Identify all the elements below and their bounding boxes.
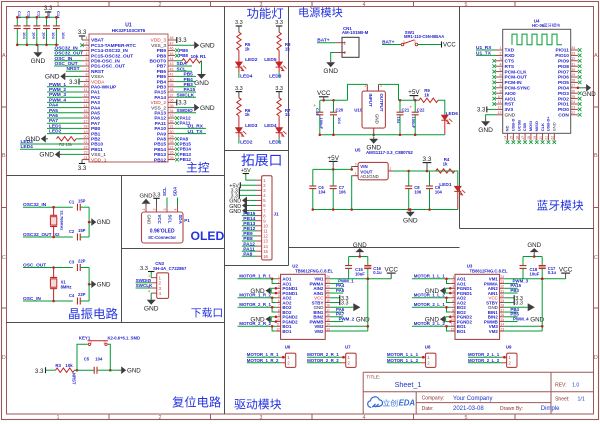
svg-text:PB14: PB14 — [154, 147, 166, 153]
svg-text:SDA: SDA — [173, 186, 178, 196]
ground at U1 VSS_3 — [175, 44, 192, 46]
svg-text:8: 8 — [500, 84, 502, 88]
svg-text:11: 11 — [276, 323, 280, 327]
net label PB8 — [175, 54, 179, 58]
wire U5 output — [393, 170, 458, 172]
svg-text:37: 37 — [170, 93, 174, 97]
svg-text:C2: C2 — [69, 229, 75, 234]
svg-text:SCL: SCL — [177, 66, 187, 72]
wire U5 adj to ground rail — [351, 176, 354, 210]
net label PB13 at J1 — [242, 225, 256, 227]
net label MOTOR_2_R_1 at U7 — [307, 356, 341, 358]
title block — [363, 371, 593, 373]
svg-text:MOTOR_1_R_2: MOTOR_1_R_2 — [247, 358, 279, 363]
ground at U3 PGND — [446, 287, 451, 289]
svg-text:15: 15 — [501, 318, 505, 322]
net label SWCLK at CN3 — [136, 287, 152, 289]
svg-text:4: 4 — [148, 290, 150, 294]
svg-text:3.3: 3.3 — [341, 301, 349, 307]
svg-text:GND: GND — [200, 105, 215, 112]
no-connect marks U4 left — [492, 59, 496, 63]
wire U3 VM3 VM2 rail — [504, 325, 542, 327]
section title 功能灯 — [247, 8, 258, 19]
wire gnd rail above U3 — [523, 256, 542, 258]
resistor R7 1k — [277, 98, 281, 116]
svg-text:SCL: SCL — [168, 215, 173, 224]
svg-text:GND: GND — [478, 127, 493, 134]
net label PWM_4 at U3 PWMB — [504, 321, 517, 323]
svg-text:LED2: LED2 — [245, 57, 258, 63]
svg-text:20: 20 — [501, 294, 505, 298]
svg-text:PB3: PB3 — [184, 82, 194, 88]
net label MOTOR_1_R_2 at U6 — [247, 362, 281, 364]
net label LED4 — [20, 148, 82, 150]
svg-text:MR1-110-C5N-BBAA: MR1-110-C5N-BBAA — [404, 34, 444, 39]
svg-text:9: 9 — [278, 313, 280, 317]
svg-text:HC-06: HC-06 — [532, 23, 545, 28]
svg-text:K2-0.6+6.1_SMD: K2-0.6+6.1_SMD — [108, 335, 140, 340]
svg-text:3.3: 3.3 — [235, 20, 243, 26]
svg-text:GND: GND — [97, 219, 111, 226]
wire gnd rail above U2 — [349, 256, 368, 258]
svg-text:100uF: 100uF — [411, 117, 416, 129]
svg-text:Sheet:: Sheet: — [555, 396, 569, 402]
svg-text:PIO10: PIO10 — [555, 53, 569, 59]
LED LED2 — [238, 50, 240, 62]
svg-text:OSC_OUT: OSC_OUT — [55, 61, 78, 67]
resistor R3 10k — [56, 368, 75, 372]
svg-text:+: + — [410, 105, 413, 110]
capacitor C17 0.1u — [541, 257, 543, 266]
svg-text:LED3: LED3 — [269, 74, 282, 80]
wire U3 VM1 to VCC rail — [504, 278, 565, 280]
net label PB12 at J1 — [242, 230, 256, 232]
resistor R5 1k — [237, 32, 241, 50]
svg-text:25: 25 — [571, 95, 575, 99]
svg-text:1: 1 — [57, 2, 60, 8]
svg-text:33: 33 — [571, 52, 575, 56]
svg-text:27: 27 — [571, 84, 575, 88]
net label BAT+ at SW1 — [382, 44, 401, 46]
ground at U3 PGND — [446, 316, 451, 318]
svg-text:104: 104 — [396, 117, 401, 124]
svg-text:3.3: 3.3 — [69, 80, 78, 86]
resistor R9 1k — [419, 98, 438, 102]
ground at J1 pin6 — [249, 205, 256, 207]
svg-text:39: 39 — [170, 83, 174, 87]
svg-text:PB2: PB2 — [91, 137, 101, 143]
section title 晶振电路 — [69, 308, 79, 319]
svg-text:LED1: LED1 — [439, 182, 452, 188]
net label PB4 at U3 BIN1 — [504, 311, 517, 313]
svg-text:VSS_1: VSS_1 — [91, 152, 106, 158]
svg-text:11: 11 — [498, 100, 502, 104]
capacitor C9 104 — [429, 171, 431, 186]
svg-text:1: 1 — [364, 84, 366, 88]
power VCC for U3 — [541, 278, 544, 281]
net label PA7 — [47, 122, 82, 124]
svg-text:15P: 15P — [78, 198, 86, 203]
svg-text:6: 6 — [500, 73, 502, 77]
svg-text:PB8: PB8 — [179, 53, 188, 58]
net label PA11 — [175, 121, 179, 125]
ground at U10 — [372, 134, 375, 137]
svg-text:3: 3 — [163, 209, 167, 211]
svg-text:PIO1: PIO1 — [558, 102, 569, 108]
svg-text:2021-03-08: 2021-03-08 — [453, 406, 484, 412]
svg-text:P1: P1 — [184, 218, 190, 223]
svg-text:3.3: 3.3 — [78, 29, 87, 36]
section title 电源模块 — [299, 7, 308, 17]
svg-text:19: 19 — [533, 136, 537, 140]
connector J1 — [262, 176, 272, 260]
svg-text:2: 2 — [278, 280, 280, 284]
capacitor C20 104 — [333, 100, 335, 112]
svg-text:PA5: PA5 — [336, 288, 345, 293]
svg-text:28: 28 — [170, 140, 174, 144]
net label PWM_1 at U2 PWMA — [330, 283, 343, 285]
net label PB8 at J1 — [242, 240, 256, 242]
net label PA5 — [47, 112, 82, 114]
net label PB15 — [175, 142, 179, 146]
svg-text:12: 12 — [451, 327, 455, 331]
capacitor C22 100uF — [414, 100, 416, 112]
svg-text:4: 4 — [159, 291, 162, 296]
power 3.3 for LED5 branch — [276, 25, 282, 27]
svg-text:D: D — [594, 355, 598, 361]
svg-text:CLK: CLK — [540, 123, 545, 131]
net label OSC32_OUT — [54, 55, 82, 57]
svg-text:+5V: +5V — [327, 155, 339, 162]
svg-text:D: D — [2, 355, 6, 361]
svg-text:19: 19 — [501, 299, 505, 303]
svg-text:U1_TX: U1_TX — [188, 129, 204, 135]
svg-text:PCM-SYNC: PCM-SYNC — [505, 86, 531, 92]
power 3.3 at U3 VCC — [504, 297, 513, 299]
svg-text:CTS: CTS — [505, 59, 515, 65]
svg-text:PCM-CLK: PCM-CLK — [505, 69, 528, 75]
resistor R2 10k with ground at U1 PB2 — [46, 138, 48, 140]
svg-text:VBAT: VBAT — [91, 38, 104, 44]
svg-text:17: 17 — [326, 308, 330, 312]
svg-text:A: A — [594, 53, 598, 59]
svg-text:MOTOR_1_L_2: MOTOR_1_L_2 — [387, 358, 419, 363]
svg-text:PB7: PB7 — [157, 64, 167, 70]
ground at P1 pin1 — [145, 204, 147, 206]
svg-text:OSC_IN: OSC_IN — [23, 296, 41, 302]
net label LED1 — [47, 127, 82, 129]
power +5V at J1 pin2 — [240, 184, 256, 186]
svg-text:10: 10 — [84, 83, 88, 87]
svg-text:MOTOR_2_L_2: MOTOR_2_L_2 — [468, 358, 500, 363]
svg-text:R3: R3 — [55, 363, 61, 368]
svg-text:PCM-IN: PCM-IN — [505, 80, 523, 86]
svg-text:5: 5 — [465, 415, 468, 421]
svg-text:TITLE:: TITLE: — [366, 374, 380, 379]
svg-text:106: 106 — [339, 190, 347, 195]
svg-text:OSC32_OUT: OSC32_OUT — [55, 51, 84, 57]
svg-text:2: 2 — [500, 52, 502, 56]
svg-text:1: 1 — [90, 340, 92, 344]
ground at U4 PIO4 — [578, 87, 584, 89]
svg-text:C: C — [2, 255, 6, 261]
svg-text:NRST: NRST — [67, 66, 80, 72]
svg-text:OLED: OLED — [191, 229, 225, 243]
svg-text:1/1: 1/1 — [578, 396, 585, 402]
svg-text:17: 17 — [521, 136, 525, 140]
svg-text:22: 22 — [501, 285, 505, 289]
section title 主控 — [187, 162, 198, 172]
svg-text:3.3: 3.3 — [275, 86, 283, 92]
svg-text:PB5: PB5 — [184, 72, 194, 78]
svg-text:GND: GND — [200, 43, 215, 50]
svg-text:OSC32_IN: OSC32_IN — [55, 45, 79, 51]
capacitor C21 104 — [399, 100, 401, 112]
svg-text:PB9: PB9 — [157, 48, 167, 54]
svg-text:9: 9 — [86, 78, 88, 82]
svg-text:104: 104 — [61, 32, 66, 39]
svg-text:MOTOR_2_R_1: MOTOR_2_R_1 — [239, 302, 271, 307]
svg-text:9: 9 — [500, 89, 502, 93]
svg-text:18: 18 — [84, 125, 88, 129]
svg-text:PB4: PB4 — [184, 77, 194, 83]
svg-text:23: 23 — [501, 280, 505, 284]
U4 right pins — [571, 49, 578, 51]
net label PWM_3 at U3 PWMA — [504, 283, 517, 285]
svg-text:TB6612FNG.C.8.EL: TB6612FNG.C.8.EL — [470, 268, 508, 273]
svg-text:14: 14 — [501, 323, 505, 327]
svg-text:VSS_3: VSS_3 — [151, 43, 166, 49]
net label PA15 — [175, 91, 196, 93]
svg-text:21: 21 — [326, 289, 330, 293]
svg-text:GND: GND — [144, 306, 159, 313]
svg-text:5: 5 — [278, 294, 280, 298]
power 3.3 at J1 pin4 — [239, 194, 256, 196]
svg-text:LED4: LED4 — [264, 123, 277, 129]
svg-text:20: 20 — [326, 294, 330, 298]
easyeda logo — [368, 397, 383, 407]
power VCC for U2 — [367, 278, 370, 281]
svg-text:PA14: PA14 — [154, 95, 166, 101]
svg-text:3: 3 — [86, 47, 88, 51]
svg-text:Date:: Date: — [422, 406, 434, 412]
power 3.3 at U1 VDDA — [78, 79, 80, 85]
svg-text:PWM_3: PWM_3 — [49, 92, 66, 98]
U4 bottom pins — [507, 133, 509, 140]
capacitor C2 15P — [76, 234, 78, 241]
svg-text:4: 4 — [500, 62, 502, 66]
ground at U1 VSS_1 — [62, 153, 82, 155]
net label PB13 — [175, 153, 179, 157]
svg-text:RXD: RXD — [505, 53, 516, 59]
svg-text:PIO11: PIO11 — [556, 48, 570, 54]
svg-text:41: 41 — [170, 73, 174, 77]
svg-text:1k: 1k — [285, 112, 290, 117]
svg-text:26: 26 — [170, 151, 174, 155]
svg-text:U1_TX: U1_TX — [476, 50, 492, 56]
svg-text:GND: GND — [39, 152, 54, 159]
svg-text:30: 30 — [571, 68, 575, 72]
power 3.3 for LED4 branch — [276, 91, 282, 93]
ground at U2 PGND — [271, 316, 276, 318]
power 3.3 at U1 VDD_3 — [175, 39, 177, 41]
svg-text:11: 11 — [451, 323, 455, 327]
resistor R4 1k — [436, 169, 455, 173]
svg-text:5: 5 — [452, 294, 454, 298]
capacitor C4 22P — [76, 298, 78, 305]
svg-text:GND: GND — [527, 242, 541, 249]
net label OSC32_IN — [23, 206, 73, 208]
svg-text:22: 22 — [326, 285, 330, 289]
svg-text:22: 22 — [571, 111, 575, 115]
svg-text:PWM_4: PWM_4 — [513, 316, 529, 321]
net label SCL — [175, 70, 192, 72]
svg-text:VCC: VCC — [443, 43, 456, 49]
svg-text:PA4: PA4 — [49, 103, 58, 109]
svg-text:MOTOR_1_L_1: MOTOR_1_L_1 — [387, 352, 419, 357]
wire to ground — [88, 268, 90, 302]
svg-text:40: 40 — [170, 78, 174, 82]
svg-text:RST: RST — [505, 102, 515, 108]
ground of crystal group — [89, 221, 91, 223]
svg-text:104: 104 — [337, 117, 342, 124]
svg-text:OSC_IN: OSC_IN — [55, 56, 73, 62]
svg-text:AIO0: AIO0 — [505, 91, 517, 97]
svg-text:BO1: BO1 — [282, 329, 292, 334]
net label SCL at P1 — [166, 198, 168, 207]
svg-text:TB6612FNG.C.8.EL: TB6612FNG.C.8.EL — [295, 268, 333, 273]
svg-text:13: 13 — [501, 327, 505, 331]
svg-text:NC: NC — [505, 125, 510, 131]
net label MOTOR_1_L_2 at U3 — [412, 297, 450, 299]
svg-text:GND: GND — [403, 218, 418, 225]
power 3.3 at U2 STBY — [330, 302, 339, 304]
net label LED2 — [238, 138, 240, 143]
svg-text:PD1-OSC_OUT: PD1-OSC_OUT — [91, 64, 125, 70]
crystal X1 8MHz — [52, 266, 55, 269]
svg-text:PIO3: PIO3 — [558, 91, 569, 97]
net label PB15 at J1 — [242, 215, 256, 217]
svg-text:23: 23 — [571, 106, 575, 110]
svg-text:U1_RX: U1_RX — [476, 45, 492, 51]
LED LED6 — [438, 100, 445, 114]
svg-text:23: 23 — [84, 151, 88, 155]
net label OSC_IN — [54, 60, 82, 62]
svg-text:VM2: VM2 — [314, 329, 324, 334]
svg-text:3.3: 3.3 — [178, 38, 187, 44]
wire U10 output to +5V rail — [379, 84, 399, 100]
svg-text:8: 8 — [278, 308, 280, 312]
svg-text:10k R1: 10k R1 — [191, 54, 207, 60]
net label PA5 at U2 AIN1 — [330, 292, 343, 294]
svg-text:USB-D: USB-D — [511, 119, 516, 132]
section title 复位电路 — [172, 396, 183, 407]
svg-text:C5: C5 — [84, 357, 90, 362]
svg-text:LED5: LED5 — [264, 57, 277, 63]
power 3.3 at U2 VCC — [330, 297, 339, 299]
net label PA6 at U2 BIN1 — [330, 311, 343, 313]
svg-text:0.1u: 0.1u — [373, 270, 382, 275]
svg-text:U9: U9 — [506, 345, 512, 350]
svg-text:PD0-OSC_IN: PD0-OSC_IN — [91, 59, 120, 65]
svg-text:GND: GND — [31, 58, 46, 65]
net label MOTOR_1_R_1 at U6 — [247, 356, 281, 358]
svg-text:OSC32_IN: OSC32_IN — [23, 202, 47, 208]
svg-text:MOTOR_2_R_1: MOTOR_2_R_1 — [307, 352, 339, 357]
svg-text:SDA: SDA — [178, 215, 183, 225]
svg-text:PC14-OSC32_IN: PC14-OSC32_IN — [91, 48, 128, 54]
svg-text:1: 1 — [355, 172, 357, 176]
net label PB9 — [175, 49, 179, 53]
svg-text:3: 3 — [452, 285, 454, 289]
net label PWM_1 — [47, 86, 82, 88]
LED LED3 — [238, 116, 240, 128]
svg-text:46: 46 — [170, 47, 174, 51]
net label OSC32_IN — [54, 49, 82, 51]
net label SWDIO — [175, 112, 196, 114]
net label MOTOR_1_R_1 at U2 — [238, 278, 276, 280]
net label MOTOR_2_L_1 at U3 — [412, 306, 450, 308]
svg-text:21: 21 — [501, 289, 505, 293]
svg-text:PIO8: PIO8 — [558, 64, 569, 70]
net label PB4 — [175, 81, 196, 83]
svg-text:7: 7 — [500, 79, 502, 83]
svg-text:18: 18 — [501, 304, 505, 308]
svg-text:33: 33 — [170, 114, 174, 118]
svg-text:6: 6 — [86, 62, 88, 66]
svg-text:CSB: CSB — [522, 123, 527, 132]
net label LED3 — [278, 73, 280, 78]
LED LED1 — [455, 171, 458, 186]
net label BAT+ at CN1 — [317, 42, 335, 44]
svg-text:GND: GND — [127, 367, 141, 374]
U2 left pins — [276, 278, 281, 280]
svg-text:PB15: PB15 — [154, 142, 166, 148]
svg-text:PWM_2: PWM_2 — [339, 316, 355, 321]
svg-text:18: 18 — [326, 304, 330, 308]
svg-text:104: 104 — [95, 357, 103, 362]
ground at CN3 pin4 — [150, 293, 152, 297]
svg-text:AMS1117-3.3_C880752: AMS1117-3.3_C880752 — [366, 150, 413, 155]
net label PB14 — [175, 147, 179, 151]
svg-text:15: 15 — [84, 109, 88, 113]
ground at U3 GND pin — [504, 306, 527, 308]
svg-text:MOSI: MOSI — [528, 121, 533, 131]
svg-text:MOTOR_1_L_2: MOTOR_1_L_2 — [414, 293, 446, 298]
net label PA12 at J1 — [242, 245, 256, 247]
svg-text:22: 22 — [84, 145, 88, 149]
svg-text:PA15: PA15 — [184, 87, 196, 93]
svg-text:PIO2: PIO2 — [558, 96, 569, 102]
svg-text:17: 17 — [501, 308, 505, 312]
net label MOTOR_2_R_2 at U7 — [307, 362, 341, 364]
net label LED2 — [47, 133, 82, 135]
capacitor C16 0.1u — [367, 257, 369, 266]
svg-text:VCC: VCC — [384, 267, 398, 274]
svg-text:1k: 1k — [443, 161, 448, 166]
svg-text:B: B — [594, 153, 598, 159]
LED LED4 — [278, 116, 280, 128]
svg-text:14: 14 — [84, 104, 88, 108]
svg-text:1: 1 — [452, 275, 454, 279]
svg-text:16: 16 — [84, 114, 88, 118]
net label PB14 at J1 — [242, 220, 256, 222]
svg-text:PA12: PA12 — [154, 116, 166, 122]
svg-text:1: 1 — [57, 415, 60, 421]
svg-text:PA0-WKUP: PA0-WKUP — [91, 85, 117, 91]
svg-text:UCSB: UCSB — [516, 120, 521, 131]
svg-text:GND: GND — [147, 215, 152, 225]
